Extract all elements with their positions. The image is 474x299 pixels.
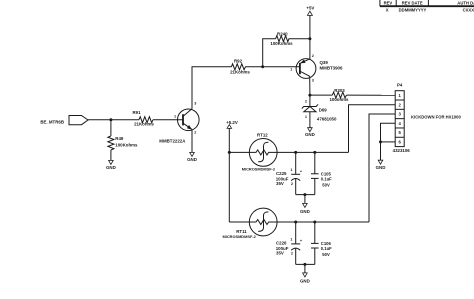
ground under R49	[106, 160, 116, 170]
wire R91 to Q1 base	[153, 119, 183, 121]
svg-text:MMBT2222A: MMBT2222A	[159, 139, 186, 144]
wire R240 to +5V rail	[289, 38, 310, 40]
svg-text:GND: GND	[187, 157, 197, 162]
svg-text:100Kohms: 100Kohms	[270, 41, 293, 46]
resistor R240	[270, 32, 293, 47]
svg-text:+5V: +5V	[306, 5, 314, 10]
svg-text:1: 1	[305, 115, 307, 119]
svg-text:AUTH DATE: AUTH DATE	[457, 1, 474, 6]
svg-text:KICKDOWN FOR HX1000: KICKDOWN FOR HX1000	[411, 115, 461, 120]
node junction C226	[294, 221, 297, 224]
wire +5.2V rail	[228, 128, 230, 222]
svg-text:1: 1	[174, 115, 176, 119]
node junction C105	[313, 151, 316, 154]
wire RT11 output	[277, 221, 369, 223]
svg-text:D69: D69	[319, 107, 328, 112]
svg-text:P4: P4	[397, 83, 403, 88]
svg-text:GND: GND	[300, 209, 310, 214]
svg-text:1: 1	[290, 237, 292, 241]
svg-text:MMBT3906: MMBT3906	[320, 66, 343, 71]
wire R240 branch left	[263, 39, 276, 67]
resistor R303	[310, 88, 349, 102]
svg-text:+5.2V: +5.2V	[226, 120, 238, 125]
svg-text:Q39: Q39	[320, 60, 329, 65]
wire P4 pin 4 to ground	[381, 123, 396, 160]
ground under C225/C105	[300, 195, 310, 214]
svg-text:35V: 35V	[276, 251, 284, 256]
svg-text:REV: REV	[384, 1, 393, 6]
svg-text:2: 2	[194, 131, 196, 135]
svg-text:0.1uF: 0.1uF	[321, 246, 332, 251]
svg-text:R240: R240	[277, 32, 288, 37]
connector P4	[393, 83, 411, 153]
svg-text:2: 2	[291, 182, 293, 186]
svg-text:50V: 50V	[322, 252, 330, 257]
node junction R240/+5V rail	[308, 37, 311, 40]
svg-text:GND: GND	[305, 132, 315, 137]
svg-text:R91: R91	[132, 110, 141, 115]
power +5V	[306, 5, 314, 15]
wire C226/C106 bottoms	[296, 263, 315, 265]
capacitor C105	[311, 152, 332, 194]
svg-text:2: 2	[291, 252, 293, 256]
transistor Q1 MMBT2222A	[159, 101, 199, 143]
svg-text:1: 1	[290, 67, 292, 71]
svg-text:RT12: RT12	[257, 132, 268, 137]
capacitor C225	[276, 152, 303, 194]
node junction C106	[313, 221, 316, 224]
svg-text:C225: C225	[276, 171, 287, 176]
ground under P4	[376, 160, 386, 170]
transistor Q39 MMBT3906	[290, 54, 343, 83]
node junction bottom/GND	[303, 263, 306, 266]
svg-text:21Kohms: 21Kohms	[134, 121, 154, 126]
svg-text:X: X	[386, 8, 389, 13]
svg-text:3: 3	[194, 101, 196, 105]
capacitor C106	[311, 222, 332, 264]
polyswitch RT11	[223, 208, 278, 239]
svg-text:0.1uF: 0.1uF	[321, 176, 332, 181]
resistor R91	[132, 110, 154, 126]
power +5.2V	[226, 120, 238, 129]
wire port to R91	[88, 119, 139, 121]
svg-text:R92: R92	[234, 58, 243, 63]
svg-text:35V: 35V	[276, 181, 284, 186]
port BE_MTR6B	[40, 116, 88, 125]
node junction port/R49	[109, 118, 112, 121]
svg-text:100Kohms: 100Kohms	[115, 142, 138, 147]
svg-text:2: 2	[312, 54, 314, 58]
revision table	[380, 0, 474, 13]
wire C225/C105 bottoms	[296, 194, 315, 196]
svg-text:REV DATE: REV DATE	[402, 1, 423, 6]
svg-text:GND: GND	[300, 278, 310, 283]
wire P4 pin 6	[381, 141, 396, 143]
wire +5V rail to Q39 emitter	[309, 15, 311, 59]
svg-text:C226: C226	[276, 241, 287, 246]
svg-text:2: 2	[305, 99, 307, 103]
ground under Q1	[187, 152, 197, 161]
wire rail to RT11	[229, 221, 249, 223]
polyswitch RT12	[242, 132, 277, 171]
svg-text:GND: GND	[376, 165, 386, 170]
wire Q1 collector to R92	[192, 67, 231, 109]
zener diode D69	[302, 95, 337, 128]
svg-text:3: 3	[312, 79, 314, 83]
svg-text:GND: GND	[106, 165, 116, 170]
ground under C226/C106	[300, 264, 310, 283]
node junction collector/R303/D69	[308, 94, 311, 97]
svg-text:CXXXXX: CXXXXX	[463, 8, 474, 13]
node junction bottom/GND	[303, 193, 306, 196]
resistor R92	[230, 58, 250, 74]
node junction C225	[294, 151, 297, 154]
svg-text:1: 1	[290, 168, 292, 172]
node junction base/R240	[261, 65, 264, 68]
wire P4 pin 3 to RT11 output	[369, 114, 395, 222]
svg-text:R49: R49	[115, 136, 124, 141]
svg-text:100ohms: 100ohms	[329, 97, 349, 102]
wire Q39 base from R92	[245, 66, 300, 68]
svg-text:4323106: 4323106	[393, 148, 411, 153]
svg-text:DDMMMYYYY: DDMMMYYYY	[399, 8, 427, 13]
svg-text:21Kohms: 21Kohms	[230, 70, 250, 75]
wire Q39 collector down	[309, 76, 311, 95]
wire rail to RT12	[229, 151, 249, 153]
node junction pin4/pin6	[379, 140, 382, 143]
wire P4 pin 2 to RT12 output	[349, 105, 396, 153]
ground under D69	[305, 128, 315, 137]
capacitor C226	[276, 222, 303, 264]
wire Q1 emitter to ground	[191, 129, 193, 152]
wire R303 to P4 pin 1	[347, 94, 396, 96]
svg-text:R303: R303	[334, 88, 345, 93]
svg-text:50V: 50V	[322, 182, 330, 187]
svg-text:BE_MTR6B: BE_MTR6B	[40, 120, 64, 125]
resistor R49	[108, 120, 138, 161]
node junction rail/RT12	[228, 151, 231, 154]
wire RT12 output	[277, 151, 348, 153]
svg-text:MICROSMDMSF-2: MICROSMDMSF-2	[242, 167, 276, 172]
svg-text:MICROSMDMSF-2: MICROSMDMSF-2	[223, 234, 257, 239]
svg-text:47681050: 47681050	[317, 116, 337, 121]
